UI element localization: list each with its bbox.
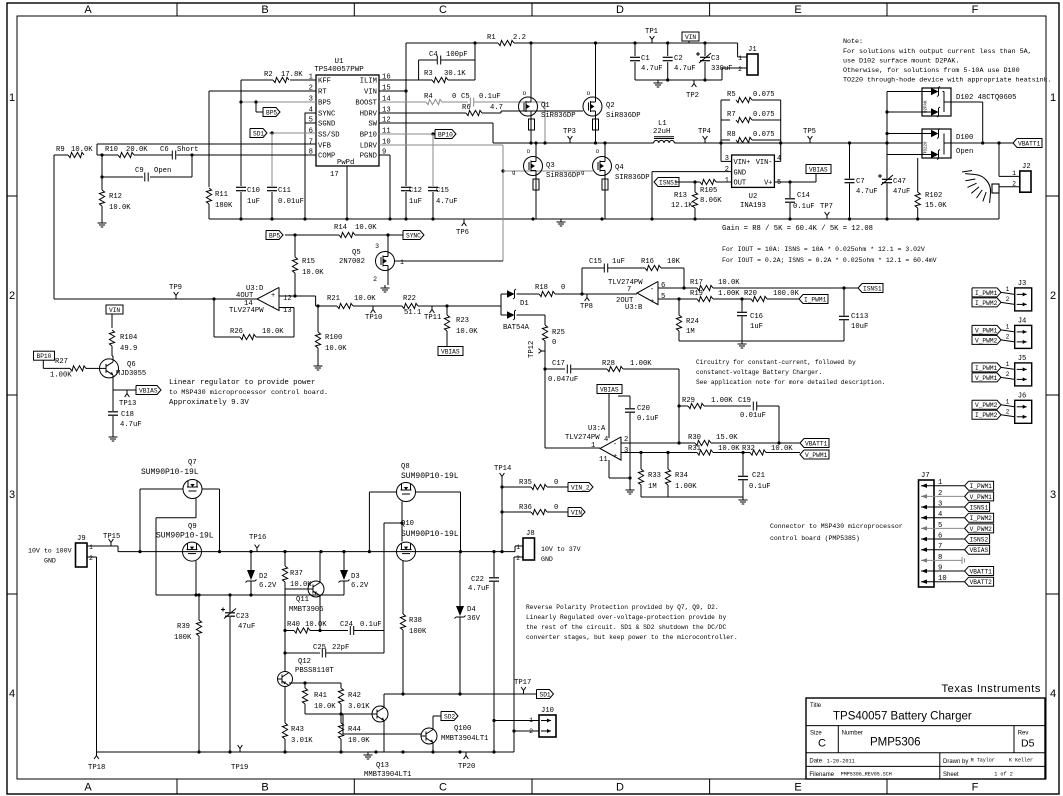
net flag SD1 (U1 SS/SD) [250,129,267,138]
svg-text:10.0K: 10.0K [348,737,370,745]
svg-text:0: 0 [452,93,456,101]
svg-text:3: 3 [375,243,379,250]
svg-text:3: 3 [9,489,15,501]
resistor R100 10.0K [317,306,319,332]
svg-text:0.01uF: 0.01uF [278,198,304,206]
svg-text:0.1uF: 0.1uF [749,483,771,491]
wire U3:D +input [279,295,316,297]
svg-text:2: 2 [938,490,942,498]
wire Q12 base vertical x=285 [284,589,286,672]
svg-text:6: 6 [309,128,313,136]
gate bias line [156,594,344,596]
connector J3 [1015,288,1032,311]
wire C11 vertical x=272 [271,133,273,186]
svg-text:R1: R1 [487,34,496,42]
title block title row [806,725,1045,727]
transistor Q4 SiR836DP [593,157,612,176]
ground C20 [629,487,631,490]
svg-text:TP9: TP9 [169,284,182,292]
wire R9 left end [54,154,68,156]
ground symbol main gnd [560,219,562,222]
wire PGND pin9 to gnd bus [379,154,390,156]
svg-text:R17: R17 [690,279,703,287]
phase/output node line [493,142,654,144]
frame column ticks top [176,3,178,16]
wire Q13 collector up to SD1 line [383,694,385,708]
net flag VBIAS (U2) [806,165,831,174]
svg-text:4OUT: 4OUT [236,292,254,300]
frame column ticks bottom [176,779,178,794]
svg-text:8: 8 [938,554,942,562]
junction dot R23 top [445,304,448,307]
svg-text:KFF: KFF [318,78,331,86]
svg-text:For IOUT = 0.2A; ISNS = 0.2A *: For IOUT = 0.2A; ISNS = 0.2A * 0.025ohm … [722,257,937,264]
wire BP5 flag stub [255,102,257,112]
net flag VBIAS (U3:A) [597,385,622,394]
svg-text:2: 2 [1050,290,1056,302]
svg-text:1M: 1M [648,483,657,491]
svg-text:11: 11 [599,456,608,464]
svg-text:VIN: VIN [571,509,582,516]
resistor R40 10.0K line [285,630,294,632]
svg-text:GND: GND [734,170,747,178]
wire SGND vertical x=305 [304,123,306,219]
net flag I_PWM1 (J3 pin1) [972,288,1001,297]
wire J1 pin2 to cap bottom line [722,67,747,69]
svg-text:D3: D3 [351,573,360,581]
svg-text:C20: C20 [637,405,650,413]
resistor R8 0.075 [721,139,730,141]
svg-text:Q1: Q1 [541,102,550,110]
junction dots diode anodes [885,110,888,113]
svg-text:J7: J7 [921,472,930,480]
svg-text:7: 7 [627,286,631,294]
svg-text:0.047uF: 0.047uF [548,376,578,384]
svg-text:SGND: SGND [318,121,335,129]
transistor Q5 2N7002 [376,252,395,271]
wire R14 to SYNC flag [355,234,403,236]
svg-text:SYNC: SYNC [406,232,421,239]
wire D1 top cathode to R18 [517,293,540,295]
net flag VBIAS (Q6) [136,386,161,395]
svg-text:R104: R104 [120,334,137,342]
wire U1 pin2 RT left [209,90,316,92]
svg-text:R4: R4 [424,93,433,101]
wire U1 pin13 HDRV [379,112,466,114]
svg-text:VIN-: VIN- [756,159,773,167]
svg-text:49.9: 49.9 [120,345,137,353]
capacitor C6 Short [171,151,173,160]
wire R20 to I_PWM1 [767,298,799,300]
net flag V_PWM1 (J5 pin2) [972,373,1001,382]
svg-text:C24: C24 [340,621,353,629]
net flag BP5 (U1) [263,108,280,117]
svg-text:3.01K: 3.01K [291,737,313,745]
svg-text:TLV274PW: TLV274PW [565,434,600,442]
svg-text:SUM90P10-19L: SUM90P10-19L [156,532,214,541]
svg-text:control board (PMP5385): control board (PMP5385) [770,535,860,542]
wire U1 pin8 COMP line [102,154,118,156]
capacitor C23 47uF polarized [229,595,231,612]
svg-text:TP8: TP8 [580,303,593,311]
svg-text:Drawn by: Drawn by [943,759,968,765]
svg-text:10.0K: 10.0K [305,621,327,629]
svg-text:I_PWM2: I_PWM2 [975,300,998,307]
svg-text:1: 1 [89,544,93,551]
svg-text:I_PWM1: I_PWM1 [970,483,993,490]
svg-text:0.075: 0.075 [753,131,775,139]
junction dot C15cap/BP10 [431,132,434,135]
svg-text:D4: D4 [467,606,476,614]
wire vertical KFF/C10 net x=241 [240,80,242,186]
svg-text:R36: R36 [519,504,532,512]
test point TP14 [501,477,503,481]
net flag SD1 (Q13) [537,690,554,699]
wire R104 to Q6 collector [111,346,113,356]
svg-text:10uF: 10uF [851,323,868,331]
wire U2 V+ pin5 [774,181,816,183]
junction dot R15 top [293,233,296,236]
junction dot R100 top [316,304,319,307]
svg-text:D102 48CTQ0605: D102 48CTQ0605 [956,94,1016,102]
svg-text:Q7: Q7 [188,459,197,467]
junction dots gate line [194,593,197,596]
svg-text:HDRV: HDRV [360,111,378,119]
resistor R42 3.01K [340,683,342,688]
junction dot VIN pin15 [404,89,407,92]
svg-text:-: - [650,286,654,294]
net flag I_PWM1 (J5 pin1) [972,363,1001,372]
wire U2 GND pin2 to bus [652,171,732,173]
resistor R36 0 [502,511,531,513]
svg-text:9: 9 [938,565,942,573]
wire HDRV gate bus to Q1 Q2 gates [482,112,501,114]
junction dot LDRV gate bus [501,169,504,172]
svg-text:2: 2 [725,166,729,174]
svg-text:1.00K: 1.00K [711,397,733,405]
svg-text:100pF: 100pF [446,51,468,59]
wire R19 to R20 [713,298,751,300]
connector J7 pin 1 net I_PWM1 [921,485,965,487]
wire U1 pin7 VFB long line [97,143,316,145]
svg-text:g: g [512,169,515,176]
wire R25 vertical [544,315,546,325]
svg-text:4.7uF: 4.7uF [468,585,490,593]
svg-text:D: D [616,4,624,16]
connector J7 pin 8 no-connect [921,559,962,561]
wire BP10 to R27 [42,360,44,368]
svg-text:2: 2 [1006,296,1010,303]
svg-text:10.0K: 10.0K [302,269,324,277]
transistor Q11 MMBT3906 PNP [308,581,324,597]
svg-text:R100: R100 [325,334,342,342]
svg-text:10K: 10K [667,258,681,266]
wire TP14 vertical to output line [501,480,503,552]
small source pad Q4 [602,179,608,190]
svg-text:I_PWM1: I_PWM1 [804,296,827,303]
svg-text:D: D [616,782,624,794]
svg-text:TP20: TP20 [458,763,475,771]
capacitor C10 1uF [236,186,246,188]
resistor R44 10.0K [340,714,342,723]
net flag VBIAS (R23) [438,347,463,356]
svg-text:22pF: 22pF [332,644,349,652]
wire U1 pin16 ILIM [379,79,432,81]
small source pad Q3 [533,179,539,190]
wire R17 to ISNS1 [713,287,858,289]
net flag V_PWM2 (J6 pin1) [972,400,1001,409]
svg-text:Rev: Rev [1018,731,1029,737]
svg-text:E: E [794,782,801,794]
connector J7 pin 3 net ISNS1 [921,506,965,508]
zener D4 36V [459,552,461,606]
wire J10 pin1 from C22 rail [494,720,539,722]
junction dot BP5/x241 [239,100,242,103]
svg-text:Short: Short [177,146,199,154]
wire SD2 to Q100 collector [433,715,441,717]
svg-text:C17: C17 [552,360,565,368]
svg-text:TLV274PW: TLV274PW [229,307,264,315]
svg-text:2: 2 [1006,408,1010,415]
wire J3 pin2 [1001,302,1015,304]
svg-text:SUM90P10-19L: SUM90P10-19L [401,472,459,481]
transistor Q1 SiR836DP [519,97,538,116]
svg-text:Q11: Q11 [296,596,309,604]
junction dot R41 top [303,681,306,684]
svg-text:For IOUT = 10A: ISNS = 10A * 0: For IOUT = 10A: ISNS = 10A * 0.025ohm * … [722,246,925,253]
svg-text:5: 5 [661,293,665,301]
svg-text:R12: R12 [109,193,122,201]
svg-text:BP10: BP10 [360,132,377,140]
capacitor C1 4.7uF [634,43,636,56]
svg-text:BP10: BP10 [438,131,453,138]
svg-text:ISNS2: ISNS2 [970,536,989,543]
svg-text:Note:: Note: [843,38,863,46]
capacitor C24 0.1uF [349,626,351,635]
net flag I_PWM1 (R20) [799,295,828,304]
svg-text:-: - [613,441,617,449]
svg-text:VBATT2: VBATT2 [970,579,993,586]
svg-text:R8: R8 [727,131,736,139]
test point TP16 [256,548,258,552]
resistor R43 3.01K [282,723,287,739]
svg-text:VBIAS: VBIAS [139,387,158,394]
svg-text:ISNS1: ISNS1 [659,179,678,186]
svg-text:R102: R102 [925,192,942,200]
capacitor C18 4.7uF [112,390,114,411]
capacitor C19 0.01uF [752,402,754,411]
svg-text:R15: R15 [302,258,315,266]
svg-text:PwPd: PwPd [337,159,354,167]
svg-text:R39: R39 [177,623,190,631]
svg-text:Q2: Q2 [606,102,615,110]
resistor R28 1.00K [607,366,623,371]
svg-text:J1: J1 [748,46,757,54]
junction dot Q5 drain [386,233,389,236]
svg-text:D2: D2 [259,573,268,581]
resistor R41 10.0K [304,683,306,688]
svg-text:See application note for more: See application note for more detailed d… [696,379,885,386]
svg-text:C10: C10 [247,187,260,195]
wire Q7 left riser [140,488,183,490]
junction dots R35 R36 taps [500,485,503,488]
svg-text:BP10: BP10 [37,353,52,360]
transistor Q6 MJD3055 [100,359,119,378]
svg-text:-: - [271,304,275,312]
svg-text:TLV274PW: TLV274PW [608,279,643,287]
resistor R17 10.0K [697,285,713,290]
svg-text:Q5: Q5 [352,249,361,257]
junction dot C113 top [842,286,845,289]
wire Q7 gate chain [195,499,197,518]
capacitor C4 100pF [419,59,437,61]
wire R4 to C5 [442,101,468,103]
capacitor C25 22pF line [285,652,320,654]
wire C4/R3 left vertical [418,60,420,80]
svg-text:TP5: TP5 [803,128,816,136]
svg-text:SUM90P10-19L: SUM90P10-19L [401,530,459,539]
svg-text:SIR836DP: SIR836DP [615,174,650,182]
svg-text:J4: J4 [1018,317,1027,325]
svg-text:C3: C3 [711,55,720,63]
svg-text:Open: Open [154,167,171,175]
resistor R10 20.0K [118,152,134,157]
svg-text:PBSS8110T: PBSS8110T [295,667,335,675]
svg-text:MMBT3904LT1: MMBT3904LT1 [364,771,411,779]
svg-text:TPS40057 Battery Charger: TPS40057 Battery Charger [833,711,972,723]
svg-text:C19: C19 [738,397,751,405]
net flag BP5 (R14) [266,231,283,240]
connector J5 [1015,363,1032,386]
svg-text:use D102 surface mount D2PAK.: use D102 surface mount D2PAK. [843,58,959,66]
connector J7 pin 7 net VBIAS [921,549,965,551]
svg-text:Q9: Q9 [188,523,197,531]
svg-text:+: + [271,292,275,300]
svg-text:17.8K: 17.8K [281,71,303,79]
svg-text:1: 1 [1050,92,1056,104]
svg-text:Number: Number [842,731,863,737]
wire C19 down to -line [778,406,780,443]
svg-text:1uF: 1uF [612,258,625,266]
capacitor C11 0.01uF [267,186,277,188]
connector J10 [539,715,556,737]
svg-text:47uF: 47uF [893,188,910,196]
resistor R13 12.1K [694,182,696,192]
wire J10 pin2 from J8 gnd [514,730,539,732]
svg-text:U3:B: U3:B [625,304,643,312]
wire VIN rail vertical x=406 [405,43,407,186]
svg-text:V_PWM1: V_PWM1 [975,375,998,382]
svg-text:0.1uF: 0.1uF [479,93,501,101]
svg-text:to MSP430 microprocessor contr: to MSP430 microprocessor control board. [169,389,328,397]
svg-text:C15: C15 [436,187,449,195]
resistor R11 180K [206,188,211,204]
svg-text:R30: R30 [688,434,701,442]
svg-text:R20: R20 [744,290,757,298]
svg-text:R18: R18 [535,284,548,292]
svg-text:TP10: TP10 [365,314,382,322]
svg-text:constanct-voltage Battery Char: constanct-voltage Battery Charger. [696,369,822,376]
svg-text:SiR836DP: SiR836DP [606,112,641,120]
capacitor C2 4.7uF [667,43,669,56]
wire U1 pin15 VIN to rail vertical [379,90,406,92]
capacitor C14 0.1uF [789,182,791,198]
svg-text:K Keller: K Keller [1009,758,1033,764]
svg-text:1: 1 [1006,286,1010,293]
svg-text:R3: R3 [424,70,433,78]
svg-text:BP5: BP5 [318,100,331,108]
svg-text:10.0K: 10.0K [456,328,478,336]
wire LDRV gate bus to Q3 Q4 gates [503,170,593,172]
svg-text:3: 3 [1050,489,1056,501]
wire C11 bottom to gnd bus [271,192,273,219]
net flag SYNC [403,231,424,240]
svg-text:1uF: 1uF [750,323,763,331]
resistor R9 10.0K [68,152,84,157]
svg-text:4: 4 [777,155,781,163]
wire opamp pin11 to gnd net [608,460,610,478]
svg-text:1-20-2011: 1-20-2011 [827,759,855,765]
svg-text:6.2V: 6.2V [259,582,277,590]
svg-text:1: 1 [1006,323,1010,330]
resistor R21 10.0K [337,303,353,308]
svg-text:17: 17 [330,171,339,179]
wire LDRV vertical to gates and Q5 [502,145,504,261]
test point TP11 [431,306,433,310]
svg-text:BAT54A: BAT54A [503,324,530,332]
wire U1 pin14 BOOST with R4 C5 [379,101,426,103]
wire D100 anode branches [887,133,931,135]
svg-text:I_PWM1: I_PWM1 [975,365,998,372]
svg-text:10.0K: 10.0K [354,295,376,303]
svg-text:VIN: VIN [364,89,377,97]
svg-text:R23: R23 [456,317,469,325]
resistor R34 1.00K [667,453,669,470]
svg-text:C6: C6 [160,146,169,154]
net flag BP10 (U1) [435,130,456,139]
wire C4/R3 right vertical to VIN rail [474,43,476,80]
svg-text:1: 1 [1006,398,1010,405]
junction dot C14 top [788,180,791,183]
svg-text:SD2: SD2 [444,713,455,720]
test point TP12 [542,350,546,352]
wire J5 pin1 [1001,367,1015,369]
svg-text:g: g [581,169,584,176]
svg-text:C11: C11 [278,187,291,195]
svg-text:PMP5306_REV05.SCH: PMP5306_REV05.SCH [841,772,892,778]
wire gnd bus right end to heatsink/J2 pin2 [998,193,1000,219]
resistor R23 10.0K [446,306,448,315]
transistor Q10 SUM90P10-19L [397,542,416,561]
test point TP4 [704,140,706,144]
svg-text:Filename: Filename [809,772,834,778]
svg-text:1M: 1M [686,328,695,336]
R21 line [316,305,337,307]
svg-text:SiR836DP: SiR836DP [546,172,581,180]
svg-text:0.01uF: 0.01uF [740,412,766,420]
svg-text:LDRV: LDRV [360,143,378,151]
resistor R25 0 [542,325,547,341]
diode D1 BAT54A bottom [501,314,507,316]
ground input caps [657,80,659,83]
resistor R14 10.0K [339,232,355,237]
net flag SD2 (Q100) [441,712,458,721]
svg-text:VBIAS: VBIAS [970,547,989,554]
wire sense left vertical to VIN+ [720,100,722,161]
test point TP1 [651,40,653,44]
wire Q100 emitter to rail [432,743,434,753]
op-amp U3:D TLV274PW [257,287,279,310]
